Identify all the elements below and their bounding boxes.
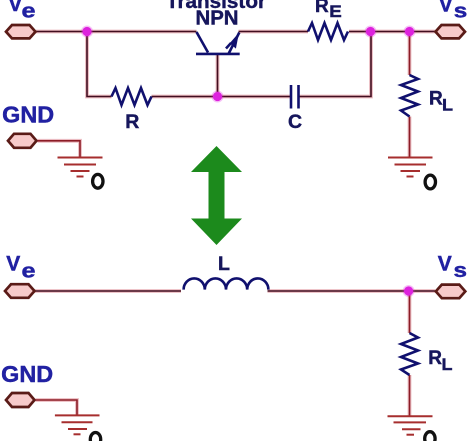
label 0 (top right ground) (425, 175, 435, 189)
svg-text:s: s (454, 1, 468, 23)
label 0 (bottom right ground) (425, 432, 435, 441)
svg-text:GND: GND (1, 361, 53, 387)
node C junction (365, 26, 377, 38)
svg-text:R: R (125, 111, 139, 133)
node F junction (403, 285, 415, 297)
wire C up to node C (300, 32, 372, 97)
svg-text:V: V (439, 0, 453, 17)
wire node B to C (218, 95, 291, 99)
inductor L (184, 278, 269, 289)
svg-text:R: R (428, 348, 442, 369)
wire L to Vs (bottom) (268, 289, 436, 293)
port Ve (bottom) (5, 284, 35, 298)
node B junction (212, 91, 224, 103)
label 0 (top left ground) (93, 174, 103, 188)
wire GND to ground (bottom left) (36, 400, 78, 415)
wire RE to node Vs (349, 30, 435, 34)
label 0 (bottom left ground) (90, 433, 100, 441)
port Vs (top) (436, 25, 466, 38)
wire Ve to L (bottom) (34, 289, 181, 293)
svg-text:GND: GND (2, 101, 54, 127)
ground (top right) (388, 158, 433, 177)
svg-text:NPN: NPN (196, 7, 239, 29)
port Vs (bottom) (436, 285, 466, 299)
svg-text:C: C (288, 111, 302, 133)
ground (bottom right) (388, 416, 433, 435)
svg-text:V: V (6, 252, 20, 275)
ground (bottom left) (55, 415, 100, 434)
svg-text:R: R (429, 89, 443, 110)
wire Ve to transistor collector (top) (36, 30, 197, 34)
wire node A down to R (87, 32, 112, 97)
wire transistor base down to node B (216, 54, 220, 97)
resistor RE (308, 23, 348, 40)
svg-text:e: e (22, 261, 36, 283)
equivalence arrow (191, 146, 242, 245)
svg-text:V: V (8, 0, 22, 16)
resistor R (112, 88, 152, 105)
wire node D down to RL (408, 32, 412, 76)
node D junction (404, 26, 416, 38)
resistor RL (bottom) (401, 333, 418, 375)
wire GND to ground (top left) (38, 141, 81, 158)
node A junction (81, 26, 93, 38)
svg-text:e: e (22, 1, 36, 23)
svg-text:s: s (454, 260, 468, 282)
svg-text:R: R (315, 0, 329, 17)
ground (top left) (58, 158, 103, 177)
svg-text:L: L (442, 96, 453, 115)
wire transistor emitter to RE (239, 30, 309, 34)
resistor RL (top) (401, 75, 418, 117)
wire node F down to RL (bottom) (408, 291, 412, 333)
transistor Q1 NPN (196, 32, 240, 54)
svg-text:E: E (329, 2, 342, 21)
svg-text:L: L (442, 355, 453, 374)
wire RL to ground (top right) (408, 117, 412, 159)
wire RL to ground (bottom right) (408, 375, 412, 416)
svg-text:V: V (438, 253, 452, 276)
port Ve (top) (6, 25, 36, 38)
svg-text:L: L (218, 253, 230, 275)
wire R to node B (152, 95, 218, 99)
capacitor C (290, 85, 293, 109)
